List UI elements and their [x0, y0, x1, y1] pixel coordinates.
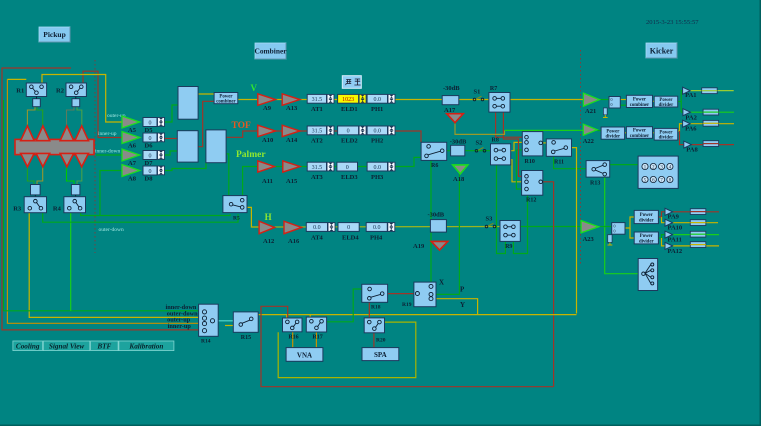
power divider K1 [654, 96, 678, 107]
kicker amp PA8 [684, 141, 692, 148]
svg-text:AT2: AT2 [311, 138, 323, 145]
svg-text:A6: A6 [128, 143, 137, 150]
wire divider to PA6 PA8 [678, 124, 683, 131]
wire R11 down to R13 green [554, 156, 592, 168]
selector R14 [199, 304, 219, 336]
amplifier A8 [122, 165, 140, 177]
svg-text:PA11: PA11 [668, 237, 682, 244]
svg-text:A22: A22 [583, 138, 594, 145]
wire V row yellow [237, 99, 583, 101]
svg-text:A13: A13 [286, 105, 298, 112]
power divider K3a [634, 210, 658, 223]
svg-text:A7: A7 [128, 160, 137, 167]
svg-text:R8: R8 [492, 137, 499, 143]
wire H row yellow-green [275, 226, 521, 229]
svg-text:PA8: PA8 [686, 147, 698, 154]
wire Y yellow [431, 299, 478, 315]
kicker amp PA10 [665, 219, 673, 226]
amplifier A10 [258, 125, 276, 137]
arrow A17 [447, 114, 464, 123]
svg-text:D8: D8 [145, 176, 154, 183]
svg-text:divider: divider [606, 135, 622, 140]
power combiner K1 [626, 95, 652, 107]
svg-text:A16: A16 [288, 238, 300, 245]
pickup tank body [15, 139, 94, 154]
wire R11 out yellow down [566, 148, 577, 314]
svg-text:combiner: combiner [630, 134, 650, 139]
amplifier A11 [258, 161, 275, 172]
menu button Kalibration [119, 341, 174, 351]
kicker amp PA12 [665, 242, 673, 249]
power combiner K2 [626, 127, 652, 139]
wire tap to R16 yellow [286, 315, 288, 323]
wire A23 chain [599, 226, 612, 228]
load PA1 [702, 88, 718, 94]
svg-text:A9: A9 [263, 105, 272, 112]
pickup electrode up 4 [75, 126, 89, 141]
wire A17 tap to A22 olive [455, 124, 505, 135]
svg-text:outer-down: outer-down [99, 227, 124, 233]
wire R7 to R10 red 1 [496, 112, 523, 137]
svg-text:R2: R2 [56, 87, 64, 94]
load PA11 [690, 231, 706, 237]
instrument SPA [362, 348, 399, 361]
switch R17 [306, 317, 326, 332]
svg-text:PA10: PA10 [668, 225, 683, 232]
svg-text:R7: R7 [490, 86, 497, 92]
svg-text:PA1: PA1 [685, 92, 696, 99]
load PA10 [690, 220, 706, 226]
load PA12 [690, 242, 706, 248]
svg-text:PA6: PA6 [685, 126, 697, 133]
wire PA1 out [690, 90, 734, 92]
svg-text:Kicker: Kicker [650, 46, 674, 55]
wire PA10 out [673, 222, 718, 224]
pickup electrode down 4 [75, 153, 89, 166]
svg-text:Pickup: Pickup [43, 30, 66, 39]
delay ELD3 [337, 162, 358, 171]
svg-text:R4: R4 [53, 206, 62, 213]
wire calibration loop yellow [278, 322, 416, 378]
combiner box 2 [177, 131, 198, 162]
svg-text:PA12: PA12 [668, 248, 683, 255]
wire PA2 out [690, 111, 734, 113]
delay D8 [143, 166, 157, 175]
svg-text:R9: R9 [505, 244, 512, 250]
svg-text:D6: D6 [145, 143, 154, 150]
switch S3 [485, 225, 488, 228]
amplifier A14 [282, 125, 300, 137]
wire R6 to R8 green [447, 150, 491, 152]
wire R10 to R11 yellow [541, 142, 554, 144]
wire divider2 to PA11 PA12 [658, 235, 665, 238]
relay R6 [421, 142, 447, 160]
svg-text:PA2: PA2 [685, 115, 696, 122]
svg-text:R17: R17 [312, 335, 322, 341]
wire R3 to R5 green [43, 213, 238, 223]
attenuator AT4 [306, 223, 327, 232]
svg-text:AT1: AT1 [311, 106, 323, 113]
pickup electrode down 1 [21, 153, 35, 166]
wire A21 chain [599, 99, 609, 101]
power combiner V [214, 93, 238, 104]
kicker amp PA11 [665, 231, 673, 238]
power divider K2a [601, 127, 625, 139]
wire D7 to combiner [164, 151, 177, 155]
attenuator AT1 [307, 94, 326, 103]
amplifier A7 [122, 149, 140, 161]
delay D5 [143, 118, 157, 127]
wire R6 to X green [430, 160, 432, 286]
svg-text:-30dB: -30dB [450, 139, 467, 146]
wire PA12 out [673, 245, 719, 247]
wire R12 bottom around R9 green [513, 195, 527, 253]
wire R17 to R18 green [327, 289, 367, 322]
svg-text:A19: A19 [413, 243, 425, 250]
wire R1 to A5 outer-up yellow [42, 75, 122, 123]
svg-text:inner-up: inner-up [168, 323, 192, 330]
wire R18 to R19 red [388, 293, 418, 295]
amplifier A6 [122, 132, 140, 144]
wire R4 inner-down drop [70, 213, 72, 311]
svg-text:ELD3: ELD3 [341, 174, 358, 181]
button Pickup [39, 27, 70, 42]
svg-text:0: 0 [149, 169, 152, 175]
svg-text:31.5: 31.5 [312, 97, 323, 103]
svg-text:divider: divider [659, 103, 675, 108]
delay ELD1 [338, 94, 359, 103]
switch R15 [233, 312, 258, 332]
svg-text:R13: R13 [590, 181, 600, 187]
svg-text:VNA: VNA [297, 352, 312, 360]
svg-text:31.5: 31.5 [312, 165, 323, 171]
amplifier A13 [282, 94, 300, 106]
amplifier A12 [259, 221, 275, 234]
svg-text:S2: S2 [476, 140, 483, 147]
wire TOF row red [226, 131, 421, 142]
svg-text:H: H [265, 212, 272, 222]
svg-text:-30dB: -30dB [443, 85, 460, 92]
svg-text:A10: A10 [262, 137, 273, 144]
button Kicker [646, 43, 677, 58]
kicker amp PA2 [683, 109, 691, 116]
relay R5 [223, 196, 247, 213]
svg-text:BTF: BTF [96, 342, 111, 350]
power divider K3b [634, 232, 658, 244]
wire R5 to H row yellow [244, 207, 259, 227]
svg-text:R14: R14 [201, 339, 211, 345]
svg-text:divider: divider [659, 136, 675, 141]
wire R18 to R20 red [368, 302, 370, 318]
relay R4 [64, 197, 86, 213]
switch R16 [283, 318, 303, 332]
fanout switch [638, 259, 657, 291]
pickup electrode down 2 [36, 153, 50, 166]
svg-text:AT3: AT3 [311, 174, 324, 181]
svg-text:0: 0 [347, 225, 350, 231]
wire D6 to combiner red [164, 138, 177, 140]
svg-text:A23: A23 [583, 236, 595, 243]
svg-text:Kalibration: Kalibration [128, 342, 163, 350]
wire R12 output red [541, 182, 554, 387]
wire inner-down stub to A7 [96, 154, 122, 156]
wire R8 row2 to R12 yellow [511, 160, 522, 182]
wire R1 feed yellow [7, 78, 26, 80]
monitor box A23 [612, 223, 625, 235]
wire net inner-down green [4, 100, 205, 311]
svg-text:1023: 1023 [342, 97, 354, 103]
instrument VNA [286, 348, 323, 362]
svg-text:2015-3-23 15:55:57: 2015-3-23 15:55:57 [646, 19, 699, 26]
svg-text:X: X [439, 279, 444, 287]
dotted guide line left [94, 60, 96, 253]
load PA8 [703, 141, 719, 147]
svg-text:PH4: PH4 [370, 235, 383, 242]
relay R7 [489, 93, 510, 113]
coupler under R1 [33, 99, 41, 107]
svg-text:R15: R15 [241, 335, 251, 341]
kicker amp PA6 [683, 120, 691, 127]
pickup electrode up 2 [36, 126, 50, 141]
wire green bus to R10 R12 [516, 149, 522, 151]
pickup electrode up 1 [21, 126, 35, 141]
wire box2 to power combiner red [198, 101, 214, 146]
relay R9 [500, 221, 520, 242]
combiner box 1 [178, 87, 198, 120]
relay R3 [24, 197, 46, 213]
monitor box A21 [609, 97, 620, 109]
svg-text:combiner: combiner [630, 103, 650, 108]
wire R16 to VNA yellow [292, 332, 294, 348]
button write [342, 76, 361, 89]
svg-text:S1: S1 [474, 89, 481, 96]
dotted guide line right [580, 50, 582, 266]
wire into R15 lower yellow [225, 325, 234, 327]
amplifier A23 [581, 221, 599, 233]
wire R13 down to fanout green [605, 174, 639, 274]
amplifier A22 [583, 124, 597, 135]
svg-text:S3: S3 [486, 216, 494, 223]
button Combiner [255, 43, 286, 59]
svg-text:A15: A15 [286, 178, 298, 185]
svg-text:ELD4: ELD4 [342, 235, 359, 242]
wire red loop bottom [261, 306, 554, 386]
selector R10 [522, 132, 543, 156]
power divider K2b [654, 128, 678, 140]
svg-text:-30dB: -30dB [428, 212, 445, 219]
svg-text:PH3: PH3 [371, 174, 384, 181]
svg-text:0: 0 [614, 229, 616, 234]
wire A22 chain [597, 130, 601, 132]
svg-text:SPA: SPA [374, 351, 387, 359]
svg-text:R16: R16 [288, 334, 298, 340]
switch R20 [364, 318, 384, 333]
menu button Signal View [43, 341, 90, 351]
svg-text:0: 0 [346, 165, 349, 171]
wire tank bottom stems [27, 167, 34, 185]
svg-text:R1: R1 [16, 87, 24, 94]
wire R2 to combiner red [83, 71, 122, 137]
svg-text:PA9: PA9 [668, 214, 680, 221]
svg-text:Combiner: Combiner [254, 47, 287, 56]
selector R12 [522, 171, 543, 196]
phase shifter PH3 [367, 162, 387, 171]
wire PA9 out [673, 211, 719, 213]
wire D8 to combiner [164, 163, 206, 171]
load PA2 [703, 109, 719, 115]
wire Palmer row green [274, 157, 421, 166]
relay R8 [491, 144, 511, 165]
svg-text:0.0: 0.0 [374, 129, 382, 135]
svg-text:0.0: 0.0 [374, 165, 382, 171]
wire R9 to A23 green [520, 226, 581, 228]
relay R2 [66, 83, 86, 97]
wire divider1 to PA9 PA10 [658, 212, 665, 217]
wire D5 to combiner [164, 105, 178, 122]
patch panel 1-8 [638, 156, 678, 188]
wire outer-down to A8 [100, 171, 122, 216]
pickup electrode down 3 [60, 153, 74, 166]
svg-text:combiner: combiner [216, 100, 236, 105]
wire PA8 out [691, 144, 734, 146]
wire A18 to P green [436, 174, 459, 295]
kicker amp PA9 [665, 208, 673, 215]
attenuator AT2 [307, 126, 326, 135]
delay ELD4 [338, 223, 359, 232]
switch R18 [362, 284, 388, 302]
svg-text:31.5: 31.5 [312, 129, 323, 135]
terminator A23 [608, 235, 612, 243]
svg-text:A21: A21 [585, 108, 596, 115]
coupler above R4 [71, 185, 80, 195]
kicker amp PA1 [683, 87, 691, 94]
svg-text:Signal View: Signal View [49, 342, 85, 350]
svg-text:A18: A18 [453, 176, 465, 183]
svg-text:R5: R5 [233, 215, 240, 221]
coupler under R2 [72, 99, 80, 107]
menu button Cooling [13, 341, 43, 351]
svg-text:0.0: 0.0 [313, 225, 321, 231]
wire PA11 out [673, 234, 719, 236]
load PA6 [703, 120, 719, 126]
pickup electrode up 3 [60, 126, 74, 141]
phase shifter PH2 [367, 126, 387, 135]
phase shifter PH1 [367, 94, 387, 103]
phase shifter PH4 [366, 223, 387, 232]
wire R20 to SPA red [373, 333, 375, 348]
switch S2 [475, 149, 478, 152]
attenuator AT3 [307, 162, 326, 171]
svg-text:R19: R19 [402, 302, 412, 308]
svg-text:PH1: PH1 [371, 106, 383, 113]
wire R8 to R10 yellow [511, 142, 523, 150]
amplifier A5 [122, 116, 140, 128]
amplifier A15 [283, 161, 300, 172]
svg-text:Palmer: Palmer [236, 150, 266, 160]
svg-text:A5: A5 [128, 127, 137, 134]
svg-text:A11: A11 [262, 178, 273, 185]
wire R13 to patch panel green [605, 164, 638, 166]
svg-text:ELD1: ELD1 [341, 106, 358, 113]
svg-text:0: 0 [149, 153, 152, 159]
svg-text:R20: R20 [376, 338, 386, 344]
amplifier A16 [284, 221, 302, 234]
svg-text:R6: R6 [431, 163, 438, 169]
arrow A19 [431, 241, 448, 250]
wire PA6 out [690, 123, 734, 125]
svg-text:0.0: 0.0 [373, 225, 381, 231]
terminator A21 [603, 108, 607, 115]
svg-text:A8: A8 [128, 176, 137, 183]
coupler above R3 [31, 185, 41, 195]
delay D7 [143, 151, 157, 160]
wire R14 to R15 cyan [213, 320, 234, 322]
svg-text:0: 0 [149, 136, 152, 142]
wire combiner to R5 green [226, 154, 229, 196]
svg-text:inner-up: inner-up [98, 131, 117, 137]
svg-text:TOF: TOF [232, 121, 252, 131]
svg-text:inner-down: inner-down [95, 149, 120, 155]
svg-text:AT4: AT4 [311, 235, 324, 242]
svg-text:R3: R3 [13, 206, 22, 213]
delay ELD2 [338, 126, 359, 135]
svg-text:ELD2: ELD2 [341, 138, 358, 145]
arrow A18 [453, 165, 468, 174]
wire net inner-up red loop [2, 68, 205, 330]
svg-text:R10: R10 [525, 159, 535, 165]
menu button BTF [91, 341, 119, 351]
selector R19 [414, 282, 436, 307]
wire net outer-up orange loop [7, 79, 204, 323]
svg-text:Cooling: Cooling [16, 342, 40, 350]
wire R8 bottom around R9 green [497, 165, 506, 254]
svg-text:A14: A14 [286, 137, 298, 144]
load PA9 [690, 209, 706, 215]
svg-text:0: 0 [611, 102, 613, 107]
amplifier A21 [583, 93, 599, 106]
wire R4 to R5 green [81, 213, 230, 216]
wire divider to PA1 PA2 green [678, 101, 682, 103]
svg-text:P: P [460, 286, 465, 294]
svg-text:R11: R11 [554, 159, 564, 165]
amplifier A9 [258, 94, 276, 106]
svg-text:A12: A12 [263, 238, 274, 245]
switch S1 [473, 98, 476, 101]
switch R13 [586, 161, 610, 178]
svg-text:PH2: PH2 [371, 138, 383, 145]
wire R17 bottom olive [315, 332, 317, 348]
svg-text:R18: R18 [371, 305, 381, 311]
combiner box 3 [206, 130, 226, 163]
svg-text:0: 0 [347, 129, 350, 135]
svg-text:Y: Y [460, 301, 465, 309]
svg-text:divider: divider [639, 218, 655, 223]
svg-text:divider: divider [639, 239, 655, 244]
delay D6 [143, 133, 157, 142]
switch R11 [546, 139, 571, 156]
svg-text:0: 0 [149, 120, 152, 126]
wire net outer-down yellow [29, 213, 204, 318]
svg-text:V: V [251, 83, 258, 93]
wire tap to R17 yellow [309, 315, 311, 323]
wire tank top stems [27, 107, 35, 126]
wire long yellow horizontal [252, 315, 576, 317]
wire box1 to power combiner yellow [198, 93, 214, 95]
svg-text:R12: R12 [526, 198, 536, 204]
wire R5 to Palmer row green [243, 167, 258, 197]
svg-text:0.0: 0.0 [374, 97, 382, 103]
wire R7 to R12 red 2 [503, 112, 521, 176]
